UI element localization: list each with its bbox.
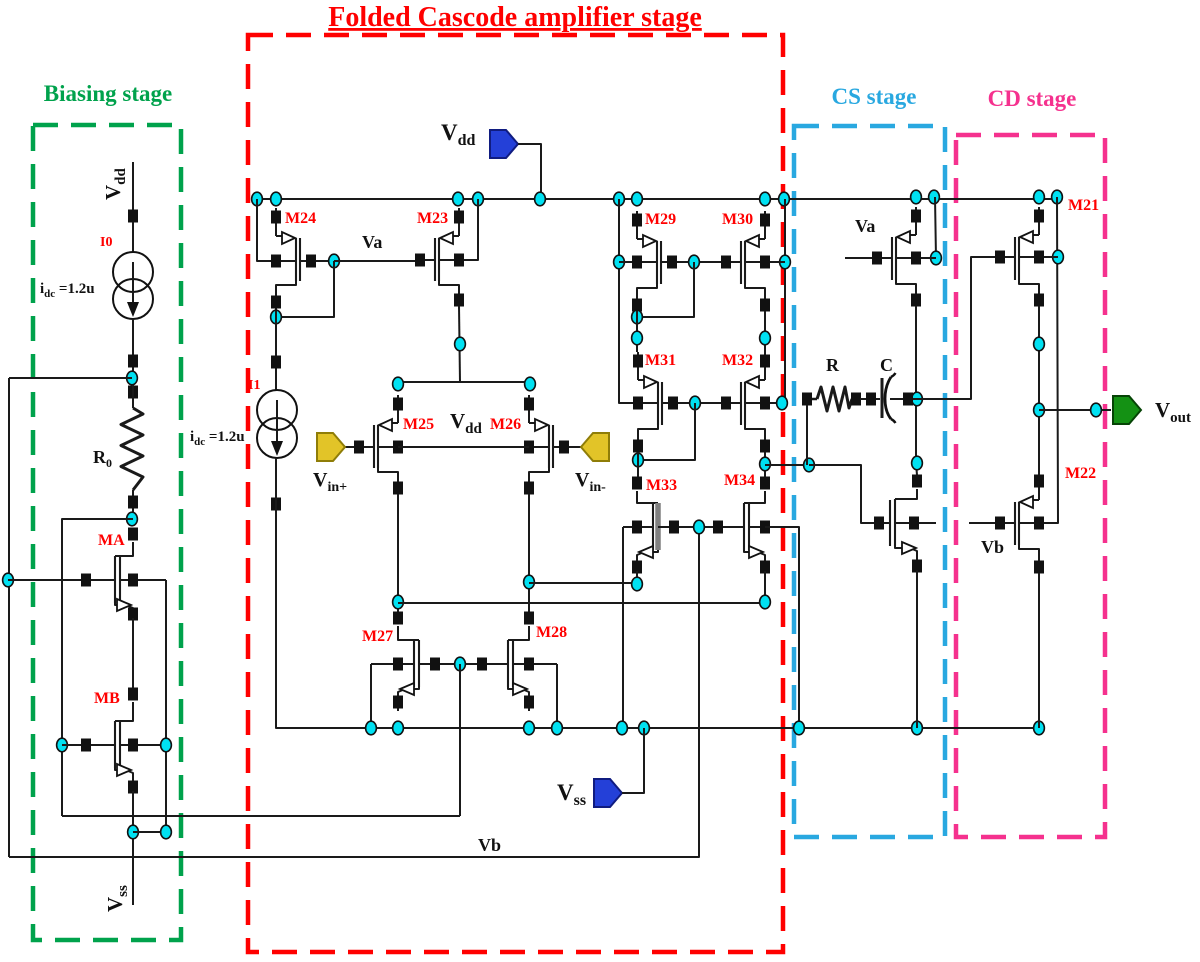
- svg-text:C: C: [880, 355, 893, 375]
- svg-text:M28: M28: [536, 624, 567, 641]
- svg-text:M33: M33: [646, 477, 677, 494]
- junction node M32 source: [760, 331, 771, 345]
- junction node M26 source: [525, 377, 536, 391]
- transistor MB (NMOS): [62, 688, 166, 797]
- svg-text:M22: M22: [1065, 465, 1096, 482]
- junction node rail M29 bulk tie: [614, 192, 625, 206]
- transistor MA (NMOS): [8, 528, 166, 624]
- wire node to left rail: [9, 377, 132, 379]
- svg-text:M29: M29: [645, 211, 676, 228]
- transistor M32 (PMOS): [695, 352, 782, 455]
- svg-text:Biasing stage: Biasing stage: [44, 81, 172, 106]
- junction node CS PMOS bulk: [931, 251, 942, 265]
- wire I0 top lead: [132, 222, 134, 252]
- junction node M33 source folded: [632, 577, 643, 591]
- pin square I0 bottom: [128, 355, 138, 368]
- wire CS PMOS bulk tie: [916, 197, 936, 258]
- wire Va line M24 to M23: [334, 260, 420, 262]
- wire MB source lead down: [132, 791, 134, 905]
- wire M33 gate down to rail: [622, 527, 624, 728]
- transistor CS amplifier NMOS (NMOS): [861, 475, 936, 576]
- wire R0 top lead: [132, 385, 134, 408]
- wire M27 gate down to rail: [370, 664, 372, 728]
- transistor M30 (PMOS): [694, 211, 785, 314]
- transistor M24 (PMOS): [258, 208, 334, 311]
- junction node rail M27 source: [393, 721, 404, 735]
- svg-text:M34: M34: [724, 472, 755, 489]
- junction node rail CS source: [912, 721, 923, 735]
- junction node M27/M28 gate mid: [455, 657, 466, 671]
- svg-text:Va: Va: [855, 216, 875, 236]
- power flag Vdd: [490, 130, 518, 158]
- pin square C right: [903, 393, 913, 406]
- wire M26 drain down: [528, 494, 530, 612]
- wire M29 gate-drain tie: [637, 262, 694, 317]
- junction node M29 bulk: [614, 255, 625, 269]
- resistor R (compensation): [812, 387, 852, 411]
- wire M25 drain down: [397, 494, 399, 612]
- svg-text:Va: Va: [362, 232, 382, 252]
- pin square I0 top: [128, 210, 138, 223]
- svg-text:M31: M31: [645, 352, 676, 369]
- junction node M24 drain: [271, 310, 282, 324]
- junction node rail CS PMOS source: [911, 190, 922, 204]
- folded cascode stage dashed box: [248, 35, 783, 952]
- wire M23 bulk tie: [459, 199, 478, 260]
- transistor CS amplifier PMOS (Va) (PMOS): [845, 207, 936, 309]
- junction node rail I1: [366, 721, 377, 735]
- junction node MA gate row left: [3, 573, 14, 587]
- junction node rail M29 source: [632, 192, 643, 206]
- wire CS output right to M21 gate: [917, 257, 1000, 399]
- capacitor C (compensation): [882, 373, 896, 423]
- wire M21/M22 bulk tie vertical: [1039, 197, 1058, 523]
- junction node rail M21 source: [1034, 190, 1045, 204]
- junction node M31/M32 gate: [690, 396, 701, 410]
- junction node M25 drain: [393, 595, 404, 609]
- junction node R0/MA drain: [127, 512, 138, 526]
- wire MB source to right rail: [133, 831, 166, 833]
- junction node right rail bottom: [161, 825, 172, 839]
- wire M28 gate down to rail: [556, 664, 558, 728]
- transistor M31 (PMOS): [619, 352, 695, 455]
- wire MA gate row right vertical: [165, 580, 167, 832]
- output flag Vout: [1113, 396, 1141, 424]
- wire R-C link: [860, 398, 880, 400]
- junction node M34 source folded: [760, 595, 771, 609]
- svg-text:M25: M25: [403, 416, 434, 433]
- wire mirror bias to M27/M28 gates: [62, 815, 460, 817]
- wire M32 drain to compensation node: [765, 464, 861, 466]
- svg-text:MB: MB: [94, 690, 120, 707]
- wire M26 drain to M33 source: [529, 582, 637, 584]
- junction node M21 drain: [1034, 337, 1045, 351]
- wire C right lead: [890, 398, 917, 400]
- junction node M29/M30 gate: [689, 255, 700, 269]
- wire diff pair source rail: [398, 381, 530, 383]
- junction node rail M30 source: [760, 192, 771, 206]
- transistor M27 (NMOS): [371, 612, 460, 712]
- junction node M23 drain: [455, 337, 466, 351]
- svg-text:M27: M27: [362, 628, 393, 645]
- junction node I0/R0: [127, 371, 138, 385]
- junction node MB gate row left: [57, 738, 68, 752]
- wire Vb line bottom: [9, 527, 699, 857]
- wire Vss flag lead: [622, 728, 644, 793]
- junction node rail M24 bulk: [252, 192, 263, 206]
- wire I0 bottom lead: [132, 319, 134, 372]
- wire comp node to CS gate: [809, 465, 879, 523]
- svg-text:Vb: Vb: [478, 835, 501, 855]
- wire M24 drain to I1: [275, 311, 277, 390]
- junction node M21 bulk: [1053, 250, 1064, 264]
- wire M21 drain down to output: [1038, 306, 1040, 475]
- wire M33 source node: [636, 571, 638, 584]
- junction node rail CS PMOS bulk tie: [929, 190, 940, 204]
- junction node Vout flag side: [1091, 403, 1102, 417]
- wire M34 source node: [764, 571, 766, 603]
- junction node rail M21 bulk tie: [1052, 190, 1063, 204]
- pin square C left: [866, 393, 876, 406]
- CD stage dashed box: [956, 135, 1105, 837]
- junction node rail M33 gate: [617, 721, 628, 735]
- wire bulk line M25-M26 (Vdd net): [398, 446, 529, 448]
- transistor M22 (PMOS): [969, 472, 1058, 576]
- wire M31 drain to M33 drain: [637, 452, 639, 478]
- wire Vdd flag lead: [518, 144, 541, 199]
- input flag Vin+: [317, 433, 345, 461]
- junction node rail M30 bulk tie: [779, 192, 790, 206]
- transistor M23 (PMOS): [415, 208, 478, 309]
- wire top Vdd rail: [257, 198, 1057, 200]
- transistor M33 (NMOS): [623, 477, 699, 577]
- transistor M28 (NMOS): [460, 612, 557, 712]
- wire M30/M32 bulk tie vertical: [765, 199, 785, 403]
- junction node M31 drain: [633, 453, 644, 467]
- wire M23 drain to diff pair tail: [459, 306, 460, 382]
- junction node M32 bulk right: [777, 396, 788, 410]
- wire mid gate node down: [459, 664, 461, 816]
- junction node Va at M24: [329, 254, 340, 268]
- svg-text:M21: M21: [1068, 197, 1099, 214]
- junction node CS NMOS drain: [912, 456, 923, 470]
- svg-text:CD stage: CD stage: [988, 86, 1077, 111]
- svg-text:R: R: [826, 355, 840, 375]
- wire Vdd lead biasing: [132, 162, 134, 211]
- wire bottom Vss rail: [277, 727, 1039, 729]
- junction node M26 drain: [524, 575, 535, 589]
- wire M32 drain down: [764, 452, 766, 478]
- svg-text:I1: I1: [248, 378, 260, 393]
- wire R left lead down to comp node: [806, 405, 808, 465]
- junction node MB source: [128, 825, 139, 839]
- wire M34 gate down to rail: [765, 527, 799, 728]
- transistor M26 (PMOS): [507, 395, 581, 497]
- junction node M31 source: [632, 331, 643, 345]
- wire R0 bottom lead: [132, 490, 134, 519]
- junction node Vout: [1034, 403, 1045, 417]
- junction node rail M24 source: [271, 192, 282, 206]
- junction node rail M34 gate: [794, 721, 805, 735]
- wire MA drain to MB gate (left): [62, 519, 133, 816]
- svg-text:CS stage: CS stage: [832, 84, 917, 109]
- junction node CS output: [912, 392, 923, 406]
- svg-text:M32: M32: [722, 352, 753, 369]
- svg-text:M26: M26: [490, 416, 521, 433]
- wire M22 drain to rail: [1038, 573, 1040, 728]
- wire M30 drain to M32 source: [764, 311, 766, 352]
- svg-text:I0: I0: [100, 235, 112, 250]
- junction node MB gate row right: [161, 738, 172, 752]
- biasing stage dashed box: [33, 125, 181, 940]
- wire CS NMOS drain: [916, 463, 917, 475]
- wire M31 gate-drain tie: [638, 403, 695, 460]
- junction node rail M23 bulk: [473, 192, 484, 206]
- pin square R left: [802, 393, 812, 406]
- junction node rail M22 drain: [1034, 721, 1045, 735]
- junction node compensation: [804, 458, 815, 472]
- pin square R right: [851, 393, 861, 406]
- pin square I1 bottom: [271, 498, 281, 511]
- wire M29 drain to M31 source: [636, 311, 638, 352]
- wire CS PMOS drain down: [915, 306, 917, 463]
- CS stage dashed box: [794, 126, 945, 837]
- wire M24 gate-drain tie: [276, 261, 334, 317]
- svg-text:M24: M24: [285, 210, 316, 227]
- junction node rail M28 gate: [552, 721, 563, 735]
- pin square I1 top: [271, 356, 281, 369]
- transistor M25 (PMOS): [345, 395, 420, 497]
- transistor M29 (PMOS): [619, 211, 694, 314]
- wire MA source to MB drain: [132, 618, 134, 690]
- wire M24 bulk tie: [257, 199, 276, 261]
- wire Vout lead: [1039, 409, 1111, 411]
- input flag Vin-: [581, 433, 609, 461]
- power flag Vss: [594, 779, 622, 807]
- wire I1 bottom lead to Vss rail: [276, 458, 371, 728]
- svg-text:Folded Cascode amplifier stage: Folded Cascode amplifier stage: [328, 2, 702, 33]
- current source I0: [113, 252, 153, 319]
- wire M25 drain to M34 source: [398, 602, 765, 604]
- wire left rail vertical (bias feedback): [8, 378, 10, 857]
- resistor R0: [121, 408, 143, 490]
- junction node M32 drain: [760, 457, 771, 471]
- pin square R0 top: [128, 386, 138, 399]
- transistor M21 (PMOS): [995, 207, 1058, 309]
- junction node rail Vss tap: [639, 721, 650, 735]
- junction node M29 drain: [632, 310, 643, 324]
- pin square R0 bottom: [128, 496, 138, 509]
- wire M29/M31 bulk tie vertical: [619, 199, 637, 403]
- junction node Vdd rail tap: [535, 192, 546, 206]
- wire CS NMOS source to rail: [916, 570, 918, 728]
- junction node M25 source: [393, 377, 404, 391]
- current source I1: [257, 390, 297, 458]
- svg-text:MA: MA: [98, 532, 125, 549]
- svg-text:Vb: Vb: [981, 537, 1004, 557]
- junction node M30 bulk: [780, 255, 791, 269]
- svg-text:M30: M30: [722, 211, 753, 228]
- junction node M33/M34 gate (Vb): [694, 520, 705, 534]
- svg-text:M23: M23: [417, 210, 448, 227]
- junction node rail M28 source: [524, 721, 535, 735]
- transistor M34 (NMOS): [699, 477, 799, 577]
- junction node rail M23 source: [453, 192, 464, 206]
